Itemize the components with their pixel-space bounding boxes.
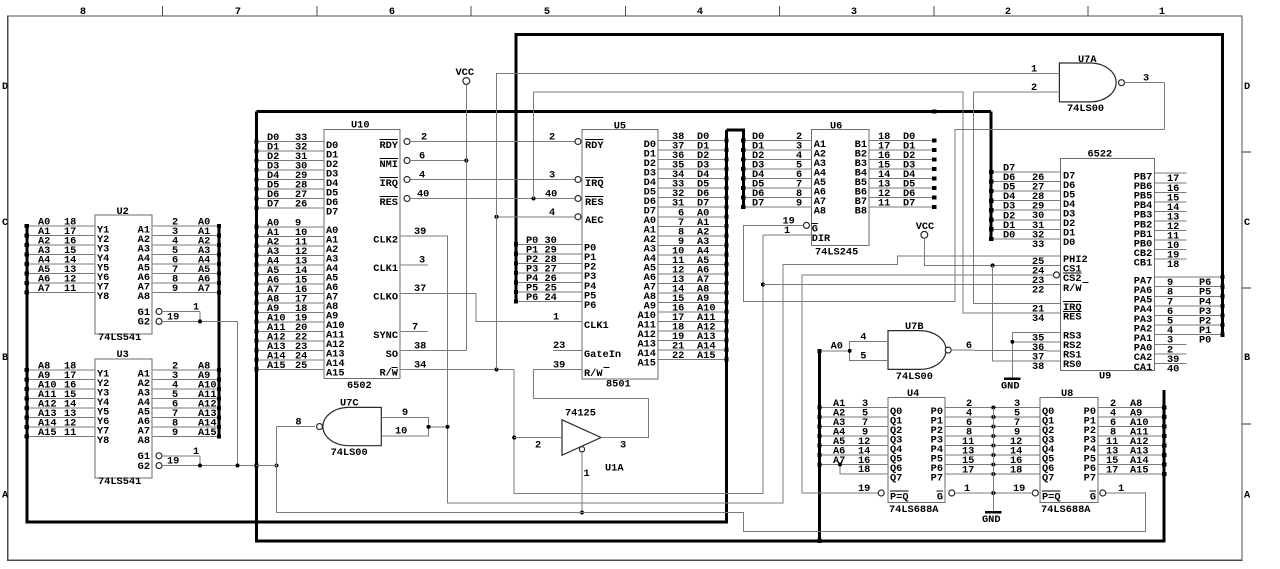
IC U2 74LS541 buffer xyxy=(95,215,152,334)
wire U6 G to U7A output net xyxy=(743,130,1164,302)
wire U5 A2 pin 8 xyxy=(658,235,727,237)
wire U9 D3 pin 30 xyxy=(991,209,1060,211)
U9 pin CA2 39 xyxy=(1154,353,1186,355)
svg-text:Q7: Q7 xyxy=(890,472,902,484)
svg-text:4: 4 xyxy=(697,6,703,18)
wire IRQ net U10-U5 xyxy=(410,179,575,181)
svg-text:38: 38 xyxy=(1032,361,1044,373)
wire U4 P2 to U8 Q2 grounded xyxy=(945,426,1040,428)
svg-text:22: 22 xyxy=(1032,285,1044,297)
svg-text:24: 24 xyxy=(545,292,557,304)
svg-text:U9: U9 xyxy=(1099,371,1111,383)
svg-text:C: C xyxy=(2,217,8,229)
wire U6 B7 D6 xyxy=(869,197,934,199)
svg-text:5: 5 xyxy=(860,350,866,362)
wire U8 P=Q to ground net xyxy=(1029,492,1033,494)
wire U10 D2 pin 31 xyxy=(257,160,324,162)
junction U9 R/W tee on DIR vertical xyxy=(761,283,765,287)
wire U4 Q1 A2 pin 5 xyxy=(820,416,889,418)
svg-text:P6: P6 xyxy=(584,300,596,312)
wire U10 A9 pin 18 xyxy=(257,311,324,313)
svg-text:7: 7 xyxy=(235,6,241,18)
IC U9 6522 VIA xyxy=(1061,158,1155,370)
svg-text:40: 40 xyxy=(545,189,557,201)
wire U5 A12 pin 18 xyxy=(658,330,727,332)
svg-text:Y8: Y8 xyxy=(97,435,109,447)
svg-text:11: 11 xyxy=(64,427,76,439)
wire U9 PA2 pin 4 net P1 xyxy=(1154,324,1222,326)
wire U3 Y3 A10 xyxy=(27,388,95,390)
wire U9 D0 pin 33 xyxy=(991,238,1060,240)
wire U9 PA5 pin 7 net P4 xyxy=(1154,295,1222,297)
wire bus tap to Gnet xyxy=(257,465,277,467)
svg-text:GND: GND xyxy=(982,514,1001,526)
wire U2 Y4 A3 xyxy=(27,254,95,256)
svg-text:19: 19 xyxy=(167,311,179,323)
wire U5 P6 pin 24 xyxy=(516,301,582,303)
svg-text:A15: A15 xyxy=(697,350,716,362)
wire U9 D5 pin 28 xyxy=(991,190,1060,192)
IC U6 74LS245 transceiver xyxy=(812,130,869,246)
wire U10 D1 pin 32 xyxy=(257,150,324,152)
svg-text:CB1: CB1 xyxy=(1134,257,1153,269)
svg-text:1: 1 xyxy=(964,483,970,495)
wire U4 P7 to U8 Q7 grounded xyxy=(945,473,1040,475)
wire U3 A1 out A8 xyxy=(152,369,219,371)
wire U4 P5 to U8 Q5 grounded xyxy=(945,454,1040,456)
bus A-left thick (A0-A15 bus left side) xyxy=(27,130,727,522)
junction R/W at U7A input vertical xyxy=(495,368,499,372)
wire U5 D2 pin 36 xyxy=(658,159,727,161)
svg-text:74LS688A: 74LS688A xyxy=(1041,504,1091,516)
wire U5 D1 pin 37 xyxy=(658,149,727,151)
wire AEC to R/W vertical xyxy=(497,216,576,218)
U8 pin P=Q 19 xyxy=(1032,490,1038,496)
svg-text:U7A: U7A xyxy=(1078,54,1097,66)
wire U7A output xyxy=(1125,82,1165,84)
gate U7B 74LS00 NAND xyxy=(888,331,946,370)
svg-text:P7: P7 xyxy=(1084,472,1096,484)
U5 pin RDY 2 xyxy=(575,139,581,145)
wire U2 A7 out A6 xyxy=(152,282,219,284)
wire U10 A5 pin 14 xyxy=(257,273,324,275)
svg-text:VCC: VCC xyxy=(456,67,475,79)
svg-text:U2: U2 xyxy=(117,206,129,218)
wire U2 A8 out A7 xyxy=(152,292,219,294)
wire U6 A7 D6 xyxy=(743,197,811,199)
wire U9 PA1 pin 3 net P0 xyxy=(1154,334,1222,336)
svg-text:A: A xyxy=(1244,490,1251,502)
svg-text:A8: A8 xyxy=(138,291,150,303)
wire U4 Q7 pin 18 jog from A7 xyxy=(840,465,888,475)
svg-text:2: 2 xyxy=(535,440,541,452)
wire U9 CB2 pin 19 xyxy=(1154,249,1186,251)
svg-text:74LS541: 74LS541 xyxy=(98,332,141,344)
wire U4 Q0 A1 pin 3 xyxy=(820,407,889,409)
border zone ticks right xyxy=(1242,151,1251,153)
wire U6 A5 D4 xyxy=(743,178,811,180)
wire U9 PA3 pin 5 net P2 xyxy=(1154,315,1222,317)
IC U3 74LS541 buffer xyxy=(95,359,152,478)
buffer U1A 74125 xyxy=(562,420,601,455)
wire U4 Q5 A6 pin 14 xyxy=(820,454,889,456)
wire U9 PB2 pin 12 xyxy=(1154,220,1186,222)
svg-text:A15: A15 xyxy=(267,360,286,372)
IC U4 74LS688A comparator xyxy=(888,398,945,503)
U1A enable bubble pin 1 xyxy=(579,447,584,452)
U1A output wire pin 3 to U5 R/W net xyxy=(534,370,649,438)
svg-text:CLK1: CLK1 xyxy=(584,320,609,332)
wire U4 P3 to U8 Q3 grounded xyxy=(945,435,1040,437)
wire U2 Y2 A1 xyxy=(27,235,95,237)
svg-text:22: 22 xyxy=(672,350,684,362)
svg-text:D7: D7 xyxy=(903,198,915,210)
bus D right down-leg at 6522 xyxy=(990,112,993,239)
svg-text:RES: RES xyxy=(379,197,398,209)
wire U5 P1 pin 29 xyxy=(516,253,582,255)
wire U8 P1 A9 pin 4 xyxy=(1098,416,1164,418)
svg-text:B: B xyxy=(2,352,8,364)
svg-text:D: D xyxy=(2,81,8,93)
svg-text:9: 9 xyxy=(402,407,408,419)
wire SYNC stub xyxy=(400,331,428,333)
wire RS3 RS2 to GND xyxy=(1012,332,1060,378)
svg-text:D0: D0 xyxy=(1003,229,1015,241)
svg-text:CLKO: CLKO xyxy=(373,292,398,304)
wire U5 A6 pin 12 xyxy=(658,273,727,275)
U3 pin G1 xyxy=(156,453,162,459)
wire U3 A2 out A9 xyxy=(152,379,219,381)
wire U5 D3 pin 35 xyxy=(658,168,727,170)
wire U9 PB0 pin 10 xyxy=(1154,239,1186,241)
svg-text:RES: RES xyxy=(585,197,604,209)
wire U3 Y4 A11 xyxy=(27,398,95,400)
wire U3 A6 out A13 xyxy=(152,417,219,419)
wire U5 A4 pin 10 xyxy=(658,254,727,256)
wire VCC to U9 CS1 xyxy=(924,238,1060,265)
svg-text:74LS688A: 74LS688A xyxy=(889,504,939,516)
wire U10 D7 pin 26 xyxy=(257,207,324,209)
svg-text:B: B xyxy=(1244,352,1250,364)
wire U3 Y6 A13 xyxy=(27,417,95,419)
svg-text:P=Q: P=Q xyxy=(1042,491,1061,503)
wire U3 Y1 A8 xyxy=(27,369,95,371)
wire U5 A10 pin 16 xyxy=(658,311,727,313)
U2 pin G2 xyxy=(156,318,162,324)
U10 pin NMI 6 xyxy=(404,158,410,164)
bus U2/U3 right thick xyxy=(218,226,221,437)
svg-text:26: 26 xyxy=(295,199,307,211)
svg-text:10: 10 xyxy=(395,426,407,438)
svg-text:3: 3 xyxy=(549,170,555,182)
svg-text:9: 9 xyxy=(796,198,802,210)
wire U9 CB1 pin 18 xyxy=(1154,258,1186,260)
svg-text:18: 18 xyxy=(1010,465,1022,477)
svg-text:SYNC: SYNC xyxy=(373,330,398,342)
wire U2 G to Gnet vertical xyxy=(237,321,239,465)
U9 pin PA0 2 xyxy=(1154,343,1186,345)
svg-text:1: 1 xyxy=(584,468,590,480)
svg-text:U7B: U7B xyxy=(905,321,924,333)
U7A output bubble pin 3 xyxy=(1119,80,1125,86)
U4 pin P=Q 19 xyxy=(878,490,884,496)
svg-text:D: D xyxy=(1244,81,1250,93)
U5 pin AEC 4 xyxy=(575,214,581,220)
wire U6 B5 D4 xyxy=(869,178,934,180)
svg-text:CLK1: CLK1 xyxy=(373,263,398,275)
wire U9 PB3 pin 13 xyxy=(1154,210,1186,212)
wire U6 B8 D7 xyxy=(869,206,934,208)
svg-text:1: 1 xyxy=(193,446,199,458)
svg-text:1: 1 xyxy=(193,302,199,314)
svg-text:6502: 6502 xyxy=(347,380,372,392)
wire U10 A2 pin 11 xyxy=(257,245,324,247)
wire U6 A4 D3 xyxy=(743,168,811,170)
svg-text:RES: RES xyxy=(1063,312,1082,324)
svg-text:U8: U8 xyxy=(1061,388,1073,400)
svg-text:74LS00: 74LS00 xyxy=(1067,103,1104,115)
svg-text:17: 17 xyxy=(1106,465,1118,477)
U7A input pin 1 wire (R/W net) xyxy=(497,74,1060,370)
wire VCC vertical to NMI and SO xyxy=(465,84,467,350)
wire U4 Q6 A7 pin 16 xyxy=(820,464,889,466)
wire U3 A3 out A10 xyxy=(152,388,219,390)
wire U10 D6 pin 27 xyxy=(257,198,324,200)
wire U9 D4 pin 29 xyxy=(991,200,1060,202)
wire U5 A15 pin 22 xyxy=(658,358,727,360)
wire U3 A4 out A11 xyxy=(152,398,219,400)
wire U4 Q2 A3 pin 7 xyxy=(820,426,889,428)
U2 pin G1 xyxy=(156,309,162,315)
svg-text:3: 3 xyxy=(851,6,857,18)
svg-text:G: G xyxy=(1090,491,1096,503)
wire Gnet horizontal to U8 G xyxy=(277,493,1146,531)
wire U4 Q4 A5 pin 12 xyxy=(820,445,889,447)
svg-text:R/W: R/W xyxy=(379,368,398,380)
wire U10 D4 pin 29 xyxy=(257,179,324,181)
wire U6 A2 D1 xyxy=(743,149,811,151)
svg-text:18: 18 xyxy=(858,464,870,476)
wire U2 Y7 A6 xyxy=(27,282,95,284)
svg-text:A15: A15 xyxy=(198,427,217,439)
wire U9 R/W from DIR vertical xyxy=(763,284,1061,286)
junction U3 G2 line with U2 G vertical xyxy=(236,464,240,468)
svg-text:9: 9 xyxy=(172,427,178,439)
wire U5 P4 pin 26 xyxy=(516,281,582,283)
svg-text:SO: SO xyxy=(386,349,398,361)
svg-text:P0: P0 xyxy=(1199,335,1211,347)
wire U6 B1 D0 xyxy=(869,140,934,142)
wire U9 PA7 pin 9 net P6 xyxy=(1154,276,1222,278)
bus U10-left thick with D-bus top and bottom run to right xyxy=(257,112,1165,541)
wire U10 D3 pin 30 xyxy=(257,169,324,171)
wire U8 P4 A12 pin 11 xyxy=(1098,445,1164,447)
wire NMI to VCC line xyxy=(410,160,466,162)
wire U2 A6 out A5 xyxy=(152,273,219,275)
svg-text:6: 6 xyxy=(966,340,972,352)
wire U8 P3 A11 pin 8 xyxy=(1098,435,1164,437)
wire CLKO to U5 CLK1 xyxy=(400,293,582,321)
wire U5 D6 pin 32 xyxy=(658,197,727,199)
svg-text:IRQ: IRQ xyxy=(379,178,398,190)
U10 pin IRQ 4 xyxy=(404,177,410,183)
wire U3 Y7 A14 xyxy=(27,426,95,428)
svg-text:IRQ: IRQ xyxy=(585,178,604,190)
svg-text:19: 19 xyxy=(167,456,179,468)
wire U3 A8 out A15 xyxy=(152,436,219,438)
svg-text:G2: G2 xyxy=(138,317,150,329)
svg-text:19: 19 xyxy=(858,483,870,495)
wire U5 D0 pin 38 xyxy=(658,140,727,142)
wire CLK2 net to U6 DIR and U9 PHI2 xyxy=(400,236,1061,503)
svg-text:A8: A8 xyxy=(138,435,150,447)
wire RES net U10-U5 xyxy=(410,198,575,200)
svg-text:A8: A8 xyxy=(814,205,826,217)
svg-text:2: 2 xyxy=(549,132,555,144)
svg-text:D7: D7 xyxy=(326,206,338,218)
svg-text:P6: P6 xyxy=(526,292,538,304)
wire RDY net U10-U5 xyxy=(410,141,575,143)
wire U5 A0 pin 6 xyxy=(658,216,727,218)
wire U8 P0 A8 pin 2 xyxy=(1098,407,1164,409)
svg-text:NMI: NMI xyxy=(379,159,398,171)
svg-text:25: 25 xyxy=(295,360,307,372)
svg-text:A0: A0 xyxy=(831,341,843,353)
U10 pin RES 40 xyxy=(404,196,410,202)
svg-text:D7: D7 xyxy=(267,199,279,211)
wire U6 A6 D5 xyxy=(743,187,811,189)
svg-text:9: 9 xyxy=(172,283,178,295)
wire U5 A5 pin 11 xyxy=(658,263,727,265)
svg-text:RDY: RDY xyxy=(585,140,604,152)
wire U4 P0 to U8 Q0 grounded xyxy=(945,407,1040,409)
wire U10 A0 pin 9 xyxy=(257,226,324,228)
svg-text:C: C xyxy=(1244,217,1250,229)
svg-text:3: 3 xyxy=(620,440,626,452)
svg-text:D7: D7 xyxy=(752,198,764,210)
svg-text:D0: D0 xyxy=(1063,237,1075,249)
wire U2 Y5 A4 xyxy=(27,263,95,265)
wire U5 P3 pin 27 xyxy=(516,272,582,274)
wire U10 A6 pin 15 xyxy=(257,283,324,285)
wire U2 A5 out A4 xyxy=(152,263,219,265)
wire U5 P5 pin 25 xyxy=(516,291,582,293)
wire U8 P5 A13 pin 13 xyxy=(1098,454,1164,456)
wire U6 DIR (joins R/W vertical) xyxy=(763,234,812,236)
wire U7A output down-left leg xyxy=(1163,83,1165,130)
wire U9 PB4 pin 14 xyxy=(1154,201,1186,203)
wire U6 A8 D7 xyxy=(743,206,811,208)
svg-text:11: 11 xyxy=(64,283,76,295)
svg-text:18: 18 xyxy=(1167,259,1179,271)
wire U6 B2 D1 xyxy=(869,149,934,151)
wire U5 A13 pin 19 xyxy=(658,339,727,341)
wire U4 P6 to U8 Q6 grounded xyxy=(945,464,1040,466)
bus bridge over U5/U6 data rows xyxy=(727,130,744,206)
wire U4 P1 to U8 Q1 grounded xyxy=(945,416,1040,418)
wire CS1-RS0 vertical xyxy=(993,265,1061,361)
svg-text:74125: 74125 xyxy=(565,408,596,420)
wire U10 A14 pin 24 xyxy=(257,359,324,361)
wire U6 A3 D2 xyxy=(743,159,811,161)
svg-text:A15: A15 xyxy=(38,427,57,439)
wire U5 A11 pin 17 xyxy=(658,320,727,322)
svg-text:40: 40 xyxy=(1167,364,1179,376)
wire U4 P4 to U8 Q4 grounded xyxy=(945,445,1040,447)
U7B output bubble pin 6 xyxy=(945,347,951,353)
IC U10 6502 CPU xyxy=(324,130,400,379)
wire U5 P0 pin 30 xyxy=(516,243,582,245)
wire SO to VCC line xyxy=(400,350,466,352)
svg-text:U7C: U7C xyxy=(340,398,359,410)
wire U5 A1 pin 7 xyxy=(658,225,727,227)
wire U10 A7 pin 16 xyxy=(257,292,324,294)
wire U9 PB7 pin 17 xyxy=(1154,172,1186,174)
svg-text:5: 5 xyxy=(544,6,550,18)
wire U3 Y8 A15 xyxy=(27,436,95,438)
svg-text:39: 39 xyxy=(553,360,565,372)
wire RES net long run to U9 xyxy=(534,92,1061,313)
svg-text:U1A: U1A xyxy=(605,463,624,475)
wire Gnet vertical from U7C xyxy=(276,427,278,513)
svg-text:1: 1 xyxy=(553,312,559,324)
wire U9 D1 pin 32 xyxy=(991,228,1060,230)
svg-text:A15: A15 xyxy=(1130,465,1149,477)
svg-text:U4: U4 xyxy=(907,388,919,400)
svg-text:11: 11 xyxy=(878,198,890,210)
wire CS2 from U4 P=Q xyxy=(802,275,1054,493)
svg-text:74LS00: 74LS00 xyxy=(896,371,933,383)
wire U9 PA4 pin 6 net P3 xyxy=(1154,305,1222,307)
wire U5 A9 pin 15 xyxy=(658,301,727,303)
U1A input wire pin 2 xyxy=(514,437,562,439)
wire U6 B4 D3 xyxy=(869,168,934,170)
svg-text:2: 2 xyxy=(1005,6,1011,18)
wire U10 A1 pin 10 xyxy=(257,235,324,237)
wire U10 A4 pin 13 xyxy=(257,264,324,266)
svg-text:A7: A7 xyxy=(198,283,210,295)
U9 pin CS2 23 xyxy=(1054,272,1060,278)
svg-text:GateIn: GateIn xyxy=(584,349,621,361)
wire U8 P2 A10 pin 6 xyxy=(1098,426,1164,428)
wire U2 G1-G2 join xyxy=(199,312,201,322)
U7C input pins 9 10 xyxy=(381,417,428,436)
wire U7B output to U9 RS1 xyxy=(951,349,1060,352)
svg-text:6522: 6522 xyxy=(1088,149,1113,161)
svg-text:8501: 8501 xyxy=(606,379,631,391)
wire U4 Q3 A4 pin 9 xyxy=(820,435,889,437)
svg-text:GND: GND xyxy=(1001,381,1020,393)
wire U10 D5 pin 28 xyxy=(257,188,324,190)
bus U4 A-side thick xyxy=(818,350,821,541)
wire U2 Y6 A5 xyxy=(27,273,95,275)
svg-text:CLK2: CLK2 xyxy=(373,234,398,246)
wire U8 P6 A14 pin 15 xyxy=(1098,464,1164,466)
svg-text:33: 33 xyxy=(1032,239,1044,251)
wire U10 A3 pin 12 xyxy=(257,254,324,256)
svg-text:R/W: R/W xyxy=(584,368,603,380)
wire U10 A13 pin 23 xyxy=(257,349,324,351)
svg-text:Y8: Y8 xyxy=(97,291,109,303)
svg-text:2: 2 xyxy=(1031,82,1037,94)
U8 pin G 1 xyxy=(1100,490,1106,496)
svg-text:74LS245: 74LS245 xyxy=(815,247,858,259)
U7B inputs 4 5 A0 xyxy=(850,341,888,360)
wire U5 A14 pin 21 xyxy=(658,349,727,351)
junction U3 G2 line at U7C output vertical xyxy=(275,464,279,468)
svg-text:Q7: Q7 xyxy=(1042,472,1054,484)
border zone ticks top xyxy=(162,6,164,16)
